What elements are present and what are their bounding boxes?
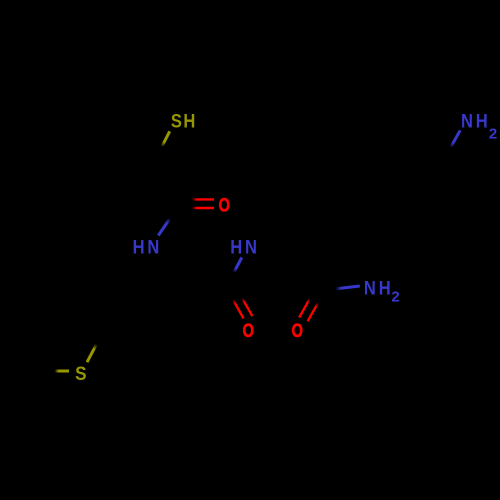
wire C-N4 (amine half-bond) xyxy=(451,130,461,147)
wire N2-C2 (amide half-bond) xyxy=(234,258,242,273)
svg-text:S: S xyxy=(75,363,86,384)
svg-text:HN: HN xyxy=(230,237,260,258)
svg-text:O: O xyxy=(219,195,230,216)
wire CH3-S2 (methyl half-bond) xyxy=(55,370,69,373)
wire S2-CH2 (thioether half-bond up) xyxy=(87,344,97,362)
svg-text:O: O xyxy=(292,321,303,342)
svg-text:2: 2 xyxy=(489,126,497,143)
svg-text:O: O xyxy=(243,321,254,342)
carbonyl C2=O2 double bond xyxy=(233,300,244,319)
svg-text:SH: SH xyxy=(171,111,197,132)
wire S-CH2 (thiol half-bond) xyxy=(162,131,170,146)
wire N1-C1 (amide half-bond) xyxy=(158,218,170,235)
svg-text:2: 2 xyxy=(391,288,399,305)
carbonyl C3=O3 double bond xyxy=(299,298,310,317)
svg-text:HN: HN xyxy=(133,237,163,258)
wire C3-N3 (amide half-bond) xyxy=(335,286,359,289)
svg-text:NH: NH xyxy=(364,278,394,299)
carbonyl C1=O1 double bond xyxy=(192,198,214,200)
svg-text:NH: NH xyxy=(461,110,491,131)
